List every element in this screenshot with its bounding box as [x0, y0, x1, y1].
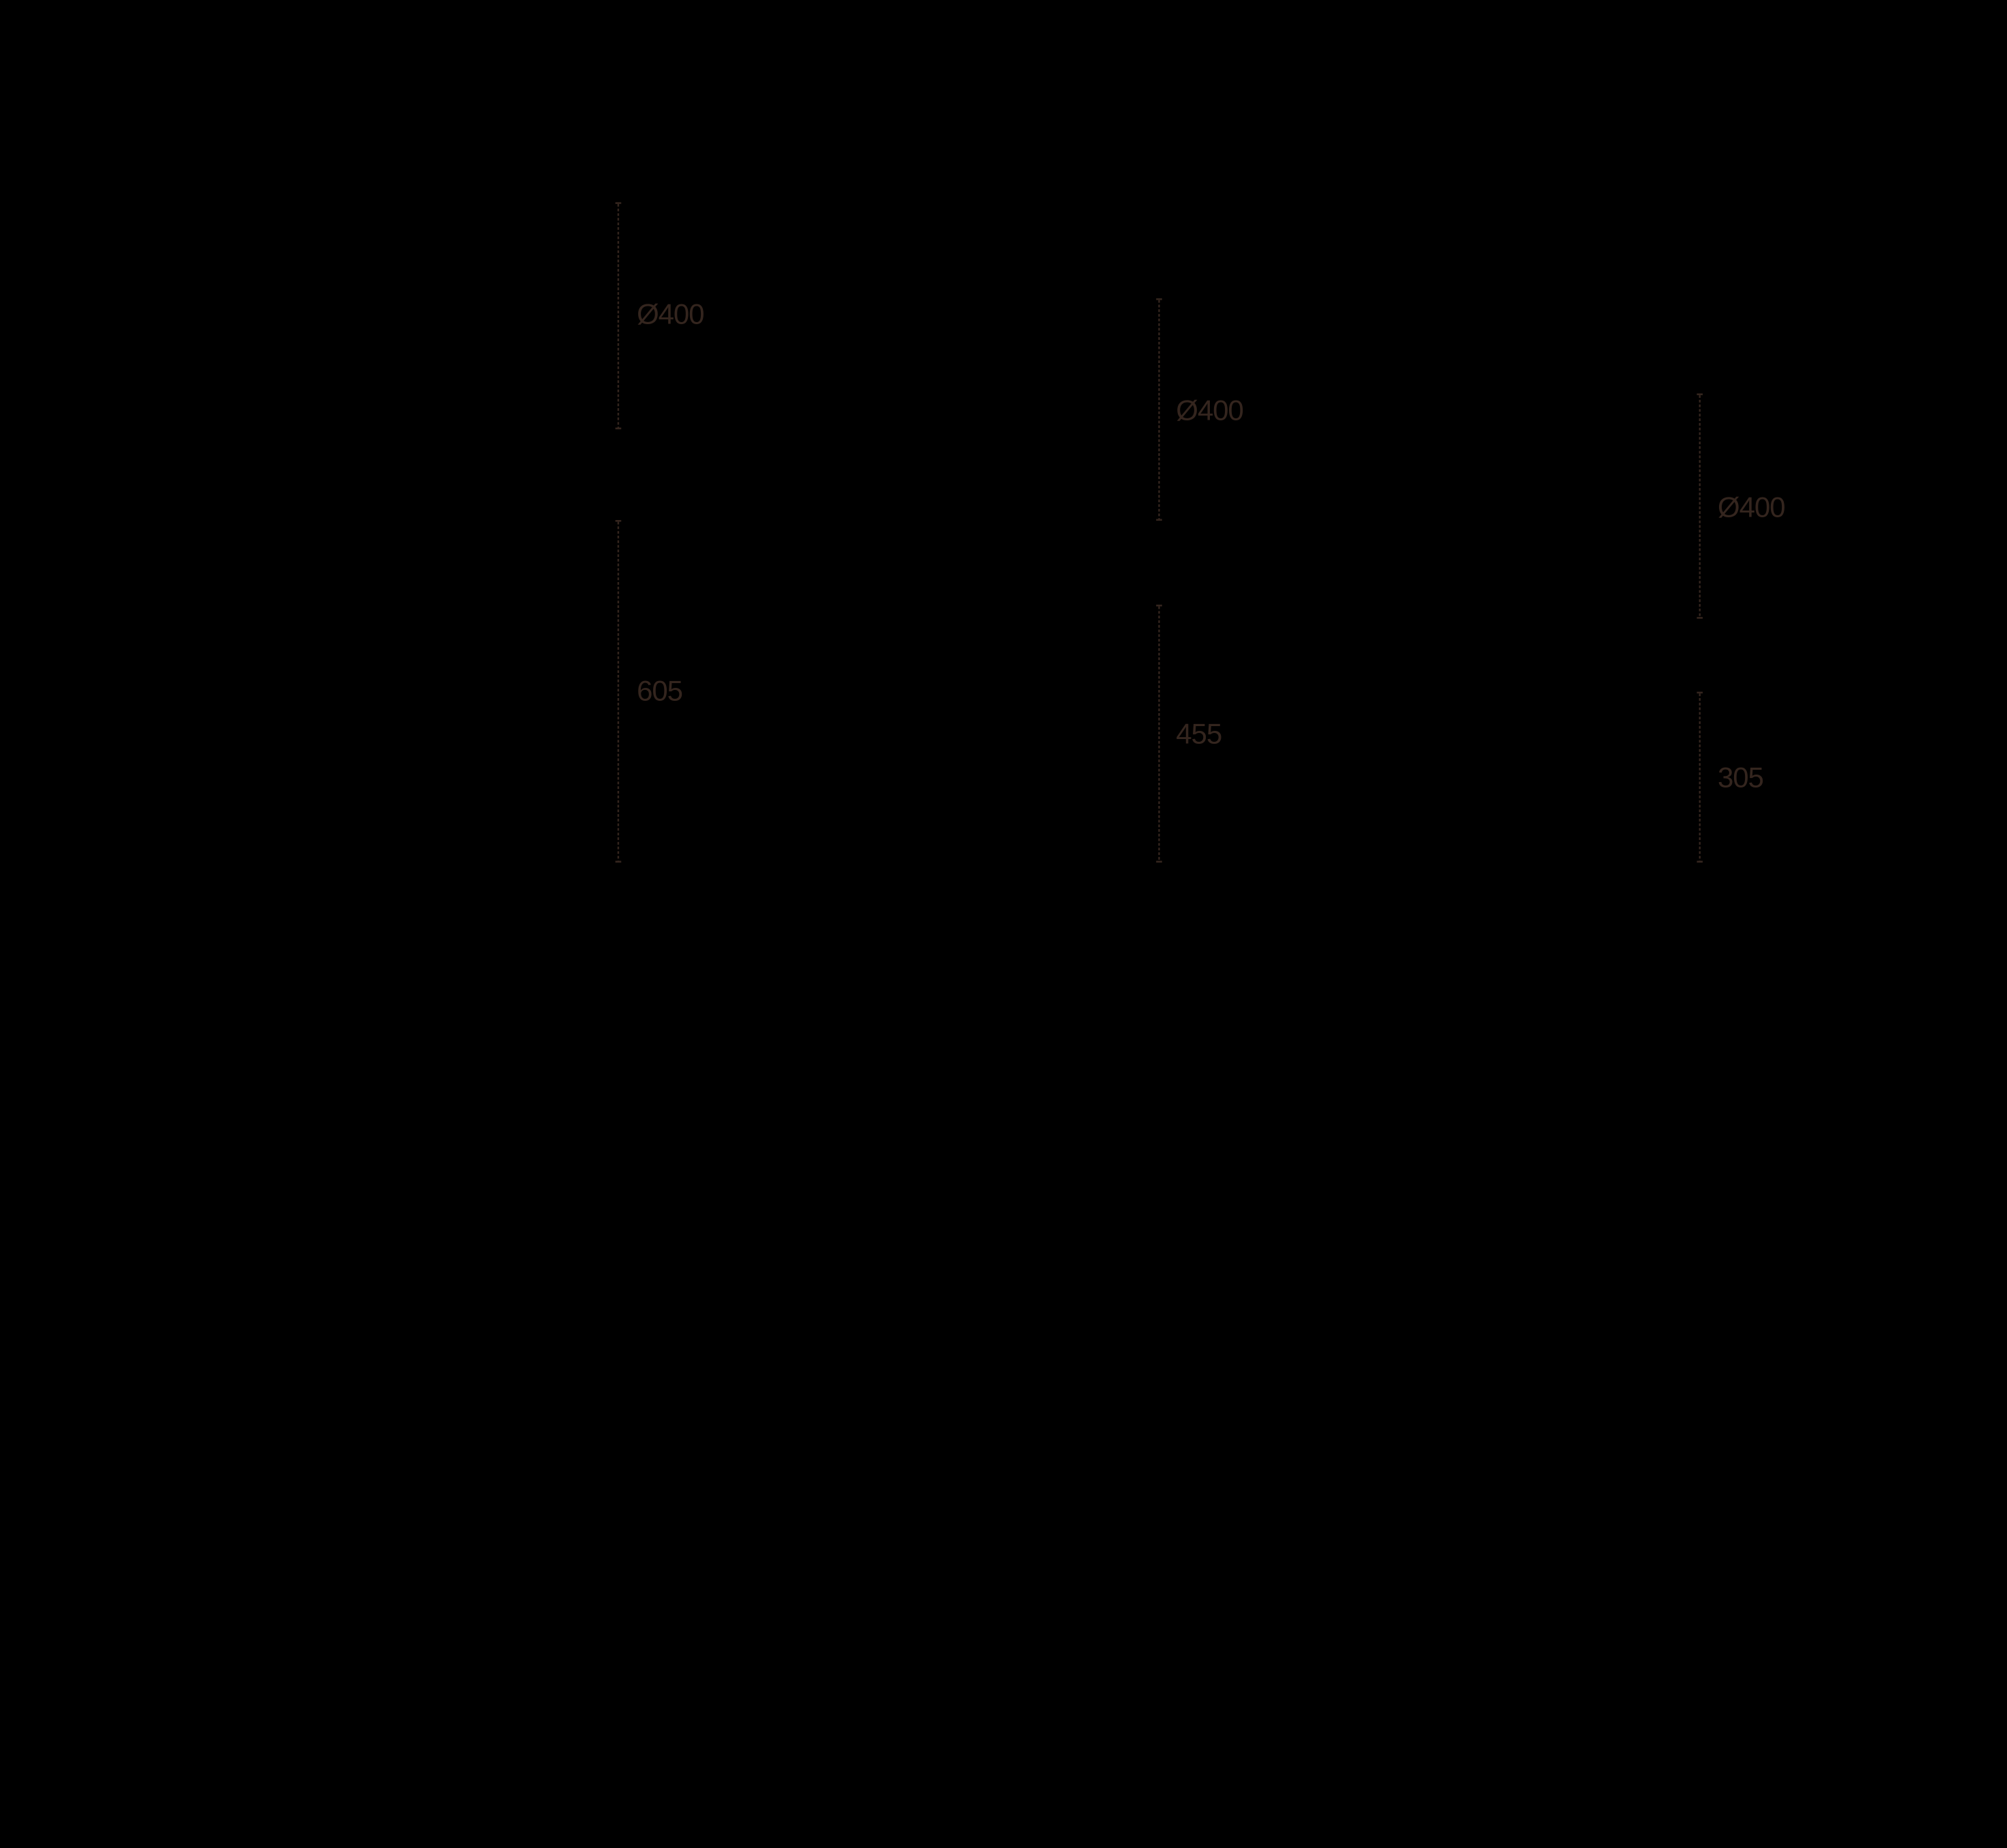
dim line lamp1 diameter Ø400 : caps: [616, 202, 622, 204]
svg-text:455: 455: [1176, 718, 1222, 750]
dim line lamp3 diameter Ø400 : dashed shaft: [1699, 395, 1701, 617]
dim line lamp2 height 455 : caps: [1156, 605, 1162, 607]
svg-text:Ø400: Ø400: [1718, 491, 1785, 523]
dim line lamp3 height 305 : dashed shaft: [1699, 693, 1701, 861]
svg-text:Ø400: Ø400: [1176, 394, 1243, 426]
svg-text:305: 305: [1718, 762, 1763, 794]
dim line lamp2 diameter Ø400 : caps: [1156, 298, 1162, 300]
dim line lamp2 diameter Ø400 : dashed shaft: [1158, 300, 1159, 519]
dim line lamp3 height 305 : caps: [1697, 692, 1703, 694]
dim line lamp1 diameter Ø400 : dashed shaft: [618, 204, 619, 428]
dim line lamp1 height 605 : dashed shaft: [618, 522, 619, 861]
dim line lamp2 height 455 : dashed shaft: [1158, 607, 1159, 861]
dim line lamp3 diameter Ø400 : caps: [1697, 393, 1703, 395]
svg-text:605: 605: [637, 675, 682, 707]
dim line lamp1 height 605 : caps: [616, 520, 622, 522]
svg-text:Ø400: Ø400: [637, 298, 704, 330]
